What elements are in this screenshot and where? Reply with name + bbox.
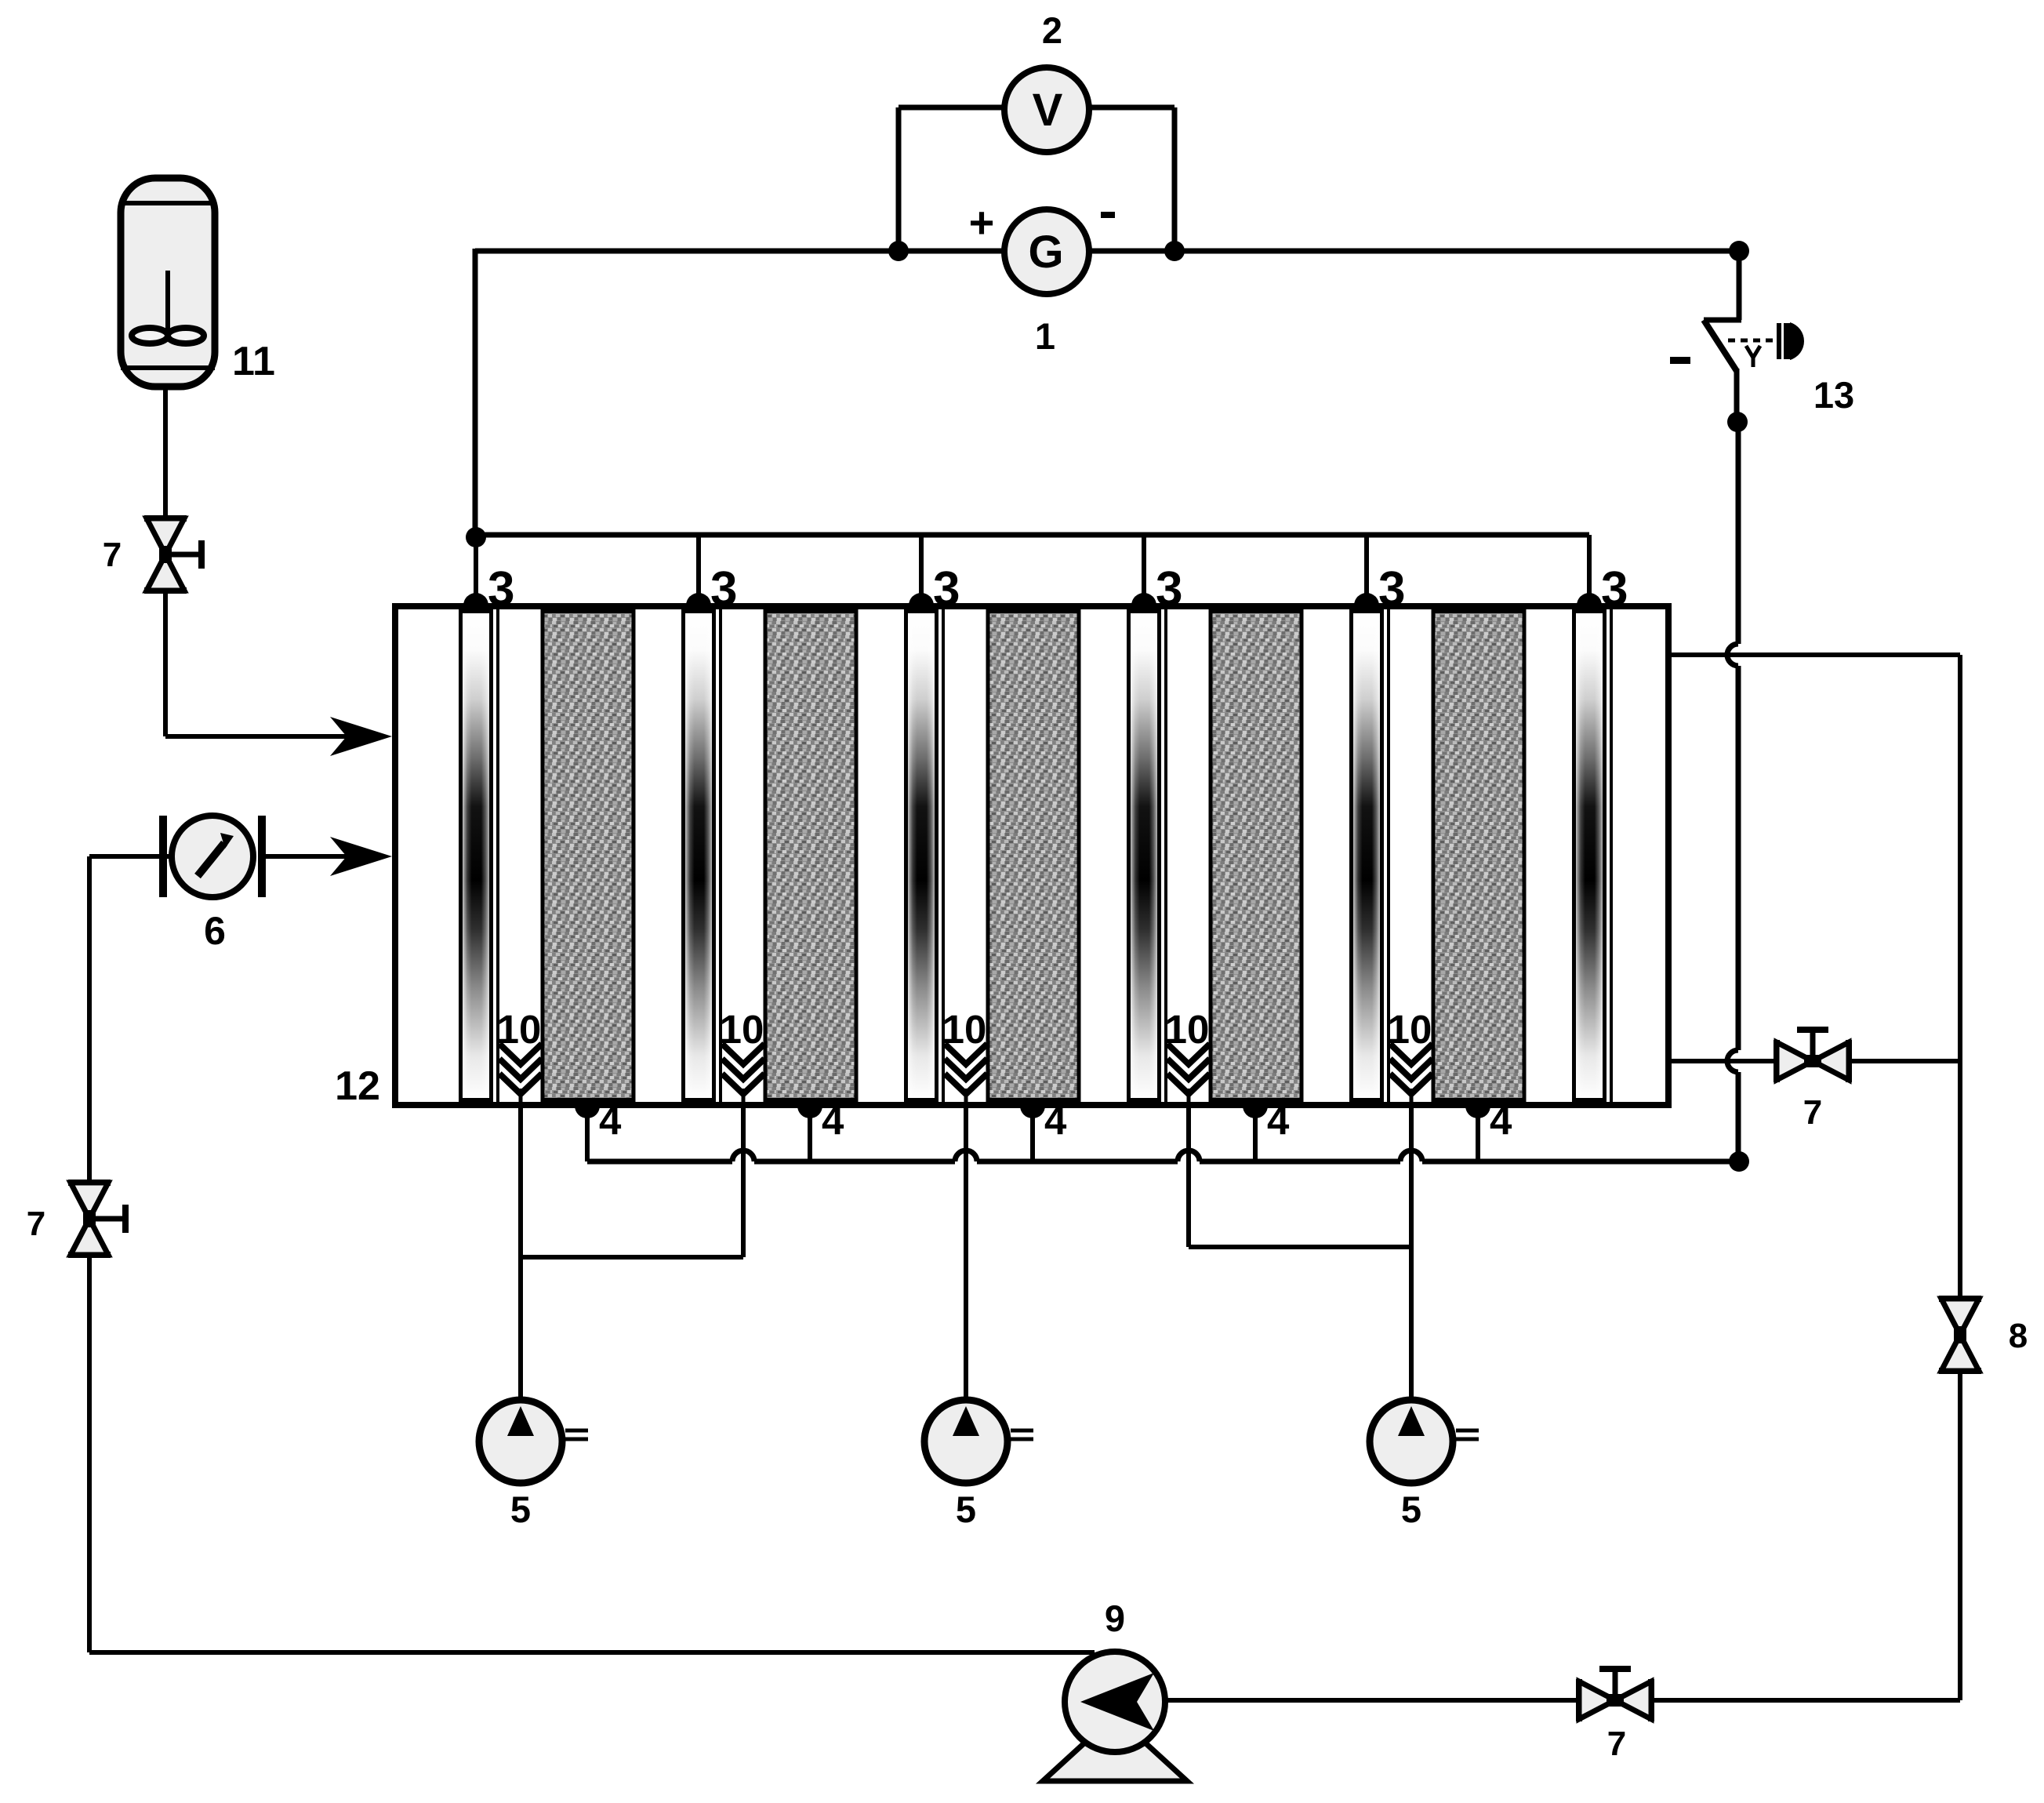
svg-text:7: 7 <box>1607 1725 1626 1763</box>
svg-text:7: 7 <box>1803 1093 1822 1132</box>
svg-text:7: 7 <box>27 1205 45 1243</box>
svg-text:5: 5 <box>1401 1489 1421 1530</box>
svg-text:10: 10 <box>720 1007 764 1052</box>
svg-text:10: 10 <box>942 1007 987 1052</box>
svg-text:12: 12 <box>335 1063 380 1109</box>
svg-text:13: 13 <box>1813 374 1854 416</box>
svg-text:5: 5 <box>510 1489 531 1530</box>
svg-text:4: 4 <box>1044 1098 1067 1143</box>
svg-text:6: 6 <box>204 909 226 953</box>
svg-text:10: 10 <box>497 1007 542 1052</box>
svg-text:4: 4 <box>822 1098 844 1143</box>
svg-text:G: G <box>1028 227 1063 278</box>
svg-text:1: 1 <box>1035 315 1055 357</box>
svg-text:5: 5 <box>956 1489 976 1530</box>
svg-text:2: 2 <box>1042 9 1062 51</box>
svg-text:9: 9 <box>1105 1598 1125 1639</box>
svg-text:4: 4 <box>1490 1098 1512 1143</box>
svg-text:+: + <box>969 198 995 247</box>
svg-text:4: 4 <box>1267 1098 1290 1143</box>
svg-text:7: 7 <box>103 536 122 574</box>
svg-text:V: V <box>1033 85 1063 136</box>
svg-text:4: 4 <box>599 1098 622 1143</box>
svg-text:8: 8 <box>2009 1317 2028 1355</box>
svg-text:10: 10 <box>1388 1007 1432 1052</box>
svg-text:10: 10 <box>1165 1007 1210 1052</box>
svg-text:11: 11 <box>232 339 275 384</box>
